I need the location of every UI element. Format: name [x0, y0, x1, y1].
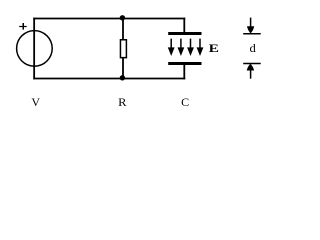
E field arrow 4	[197, 39, 204, 56]
dimension tick bottom	[243, 63, 261, 65]
capacitor C bottom plate	[168, 62, 201, 65]
capacitor C top plate	[168, 32, 201, 35]
wire right branch top	[183, 18, 185, 34]
wire top rail	[33, 18, 185, 20]
junction dot top	[120, 15, 125, 20]
svg-text:V: V	[31, 95, 40, 109]
wire resistor branch bottom	[122, 58, 124, 80]
wire resistor branch top	[122, 18, 124, 40]
dimension arrow top	[247, 18, 254, 34]
svg-text:R: R	[118, 95, 126, 109]
E field arrow 2	[178, 39, 185, 56]
svg-text:C: C	[181, 95, 189, 109]
wire left branch	[33, 18, 35, 80]
svg-text:E: E	[209, 41, 219, 55]
voltage source V1	[17, 31, 53, 67]
plus polarity mark	[19, 23, 27, 30]
dimension arrow bottom	[247, 64, 254, 79]
wire bottom rail	[33, 78, 185, 80]
E field arrow 3	[187, 39, 194, 56]
junction dot bottom	[120, 75, 125, 80]
wire right branch bottom	[183, 64, 185, 80]
dimension tick top	[243, 33, 261, 35]
resistor R body	[120, 40, 126, 58]
svg-text:d: d	[250, 41, 256, 55]
E field arrow 1	[168, 39, 175, 56]
